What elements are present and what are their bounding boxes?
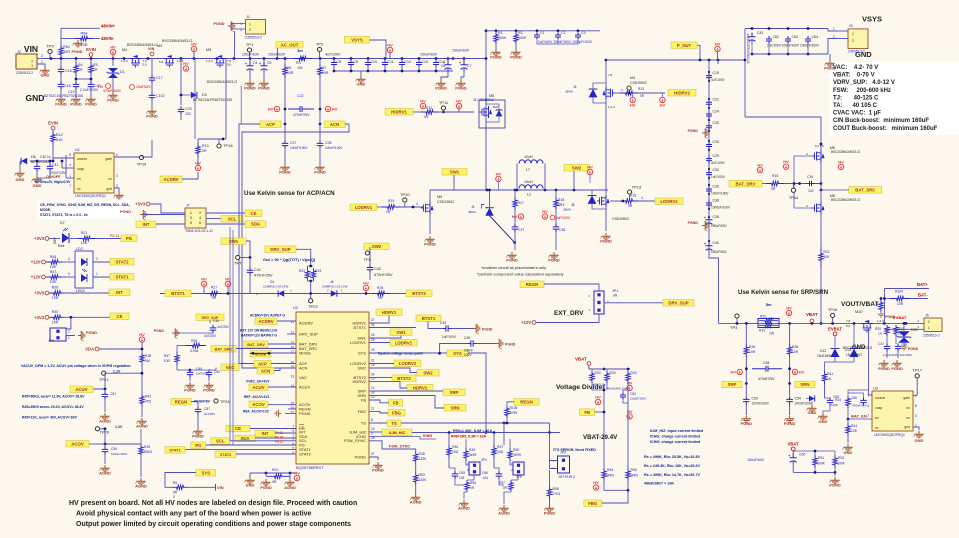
testpoint TP13: [628, 190, 632, 194]
svg-text:C8: C8: [337, 60, 342, 64]
svg-text:FSW: 200-600 kHz: FSW: 200-600 kHz: [833, 88, 891, 94]
svg-text:SW1: SW1: [396, 330, 406, 335]
net label SW2 power: [564, 165, 589, 172]
svg-text:4u7/25V: 4u7/25V: [204, 334, 217, 338]
red HV flag mid snubber: [518, 214, 523, 219]
capacitor C45: [440, 344, 469, 354]
red HV flag on rail: [387, 47, 392, 52]
wire JP1 to DRV_SUP: [604, 302, 663, 304]
svg-text:D20: D20: [911, 328, 918, 332]
red HV flag sense2: [792, 369, 797, 374]
svg-text:PGND: PGND: [192, 434, 204, 439]
net label SCL J7 pin4: [206, 218, 221, 220]
wire 48VIN branch: [60, 28, 62, 44]
svg-text:VBAT: VBAT: [806, 312, 818, 317]
svg-text:3: 3: [915, 414, 917, 418]
svg-text:R52: R52: [838, 456, 844, 460]
svg-text:AGND: AGND: [136, 424, 148, 429]
capacitor C24: [706, 111, 712, 119]
ground PGND small: [878, 312, 885, 317]
svg-text:4u7/25V: 4u7/25V: [204, 412, 215, 416]
svg-text:C43: C43: [440, 321, 446, 325]
resistor R7 10R: [319, 59, 321, 65]
svg-text:R34: R34: [191, 339, 197, 343]
svg-text:J5: J5: [925, 314, 929, 318]
wire U3 feed: [868, 323, 870, 395]
svg-text:ACP: ACP: [258, 361, 267, 366]
svg-text:AGND: AGND: [284, 485, 296, 490]
svg-text:4: 4: [416, 202, 418, 206]
svg-text:R64: R64: [81, 32, 88, 36]
svg-text:C17: C17: [156, 76, 163, 80]
net label SRP U2: [443, 389, 465, 396]
net label ACOV meas: [66, 441, 89, 448]
net label SRN U2: [444, 405, 466, 412]
net label ACN U2: [257, 368, 274, 375]
net label BTST2 right: [406, 290, 432, 297]
net flag +12V STAT2 row: [42, 260, 46, 264]
svg-text:PGND: PGND: [891, 366, 903, 371]
wire J1 down to rail: [234, 31, 236, 59]
svg-text:R49=2K5, ILIM = 20A: R49=2K5, ILIM = 20A: [451, 435, 487, 439]
svg-text:BTST2: BTST2: [412, 291, 426, 296]
svg-text:Avoid physical contact with an: Avoid physical contact with any part of …: [76, 511, 312, 518]
svg-text:BQ25756RRVT: BQ25756RRVT: [296, 465, 324, 470]
wire REGN pin stub: [288, 408, 296, 410]
red HV flag btst row2: [225, 281, 230, 286]
svg-text:5m: 5m: [766, 303, 772, 307]
ground AGND under R45: [135, 478, 145, 485]
svg-text:R56: R56: [470, 481, 476, 485]
svg-text:1: 1: [292, 433, 294, 437]
svg-text:BZT52C15LPBZT52C15S: BZT52C15LPBZT52C15S: [44, 94, 84, 98]
svg-text:C10: C10: [371, 60, 377, 64]
svg-text:C54: C54: [795, 397, 801, 401]
svg-text:PGND: PGND: [505, 343, 516, 347]
wire P_OUT to rail: [697, 45, 700, 60]
capacitor C1: [536, 31, 538, 33]
svg-text:1: 1: [190, 211, 192, 215]
capacitor C32: [706, 169, 712, 177]
svg-text:P0.13: P0.13: [110, 234, 119, 238]
svg-text:FB: FB: [361, 397, 366, 402]
svg-text:C11: C11: [388, 60, 394, 64]
svg-text:R10: R10: [272, 468, 278, 472]
resistor R54 49K9: [602, 468, 606, 481]
wire SW1 label down to C41: [246, 241, 250, 258]
resistor R11 0R: [413, 111, 421, 113]
ground PGND under U2: [369, 457, 378, 460]
svg-text:1K8: 1K8: [452, 450, 458, 454]
resistor R43 100K: [838, 397, 848, 399]
net label SRN sense: [795, 381, 815, 388]
zener diode D3: [180, 59, 182, 96]
svg-text:JP2: JP2: [48, 339, 54, 343]
net label HIDRV2: [668, 90, 696, 97]
svg-text:34: 34: [371, 323, 375, 327]
testpoint TP16: [831, 313, 835, 317]
svg-text:R37: R37: [164, 354, 170, 358]
red HV flag bat src: [838, 164, 843, 169]
net label INT row: [109, 289, 130, 296]
ground PGND flag JP2: [78, 331, 85, 341]
resistor R47 1K8: [493, 433, 495, 446]
svg-text:BAT_EN: BAT_EN: [851, 414, 867, 419]
svg-text:EXT 12V OR REGN LDO: EXT 12V OR REGN LDO: [240, 329, 278, 333]
resistor R49 4k99: [465, 439, 467, 448]
net label STAT1 bottom: [165, 447, 185, 454]
svg-text:10R: 10R: [322, 71, 329, 75]
svg-text:ACDRV: ACDRV: [299, 320, 313, 325]
capacitor C27: [284, 124, 286, 141]
red HV flag divider1: [627, 385, 632, 390]
net label BAT_SRC U2: [211, 346, 236, 353]
svg-text:C65: C65: [459, 471, 465, 475]
svg-text:1R: 1R: [78, 68, 83, 72]
ground GND cap bank: [360, 71, 362, 76]
svg-text:D7: D7: [60, 221, 65, 225]
svg-text:C12: C12: [405, 60, 411, 64]
svg-text:LD2: LD2: [76, 247, 83, 251]
svg-text:ACDRV: ACDRV: [258, 319, 273, 324]
net label FBG U2: [388, 410, 405, 417]
red HV flag on ACDRV chain: [195, 165, 200, 170]
net label FBG bottom: [584, 500, 602, 507]
capacitor C15: [706, 72, 712, 80]
diode D10 bootstrap: [331, 290, 337, 296]
svg-text:C38: C38: [559, 228, 565, 232]
svg-text:L2: L2: [527, 193, 531, 197]
capacitor C37: [514, 210, 516, 224]
svg-text:C57: C57: [204, 407, 210, 411]
net label ACUV meas: [70, 386, 93, 393]
ground PGND under M9: [429, 214, 431, 234]
net label BAT_SRC right: [849, 187, 882, 194]
svg-text:R45: R45: [144, 445, 150, 449]
net flag VDA: [95, 347, 99, 351]
diode D6: [30, 160, 53, 162]
shunt resistor R31 5m: [758, 319, 779, 328]
svg-text:HIDRV1: HIDRV1: [391, 109, 407, 114]
svg-text:100nF/100V: 100nF/100V: [325, 146, 343, 150]
svg-text:CMMR1U-02-LTW: CMMR1U-02-LTW: [263, 285, 288, 289]
svg-text:11: 11: [371, 406, 375, 410]
svg-text:150uF/63V: 150uF/63V: [711, 224, 727, 228]
svg-text:BSC035N10NS3-G: BSC035N10NS3-G: [207, 80, 237, 84]
ground PGND under R1: [490, 49, 500, 56]
svg-text:HV: HV: [201, 276, 207, 281]
ground AGND under R53: [410, 494, 420, 501]
svg-text:PGND: PGND: [146, 114, 158, 119]
svg-text:SDA: SDA: [251, 222, 260, 227]
svg-text:4u7/100V: 4u7/100V: [325, 53, 341, 57]
capacitor C35: [706, 186, 712, 194]
net label LODRV2 U2: [394, 360, 421, 367]
diode D14 bat: [809, 396, 815, 402]
svg-text:SRN: SRN: [450, 405, 459, 410]
svg-text:PGND: PGND: [435, 86, 447, 91]
capacitor C14: [435, 59, 437, 61]
svg-text:R42: R42: [145, 395, 151, 399]
svg-text:TP9: TP9: [46, 44, 54, 49]
ground PGND under C6: [435, 80, 445, 87]
svg-text:D4: D4: [270, 280, 274, 284]
svg-text:TP7: TP7: [234, 261, 242, 266]
svg-text:0R: 0R: [503, 486, 508, 490]
svg-text:HV present on board. Not all H: HV present on board. Not all HV nodes ar…: [69, 500, 357, 507]
svg-text:1000pF/100V: 1000pF/100V: [711, 205, 731, 209]
svg-text:CE: CE: [251, 211, 257, 216]
svg-text:R24: R24: [315, 269, 321, 273]
svg-text:PGND: PGND: [203, 388, 215, 393]
svg-text:GND: GND: [819, 419, 828, 424]
net flag +3V3 J7: [146, 202, 150, 206]
net label CE J7 pin2: [206, 212, 245, 214]
wire diodes bottom: [835, 357, 854, 362]
wire kelvin sense ACP down to IC: [239, 124, 296, 364]
svg-text:R19: R19: [388, 199, 394, 203]
svg-text:D6: D6: [31, 155, 36, 159]
ground PGND flag ladder2: [702, 221, 709, 231]
svg-text:DRV_SUP: DRV_SUP: [299, 331, 318, 336]
resistor R50 4K99: [509, 439, 511, 448]
svg-text:2: 2: [249, 28, 251, 32]
jumper JP1: [594, 291, 604, 314]
ground PGND flag J7 pin3: [140, 210, 147, 220]
svg-text:5: 5: [190, 221, 192, 225]
svg-text:PGND: PGND: [70, 102, 82, 107]
net label STAT2: [110, 259, 134, 266]
svg-text:M9: M9: [437, 195, 442, 199]
svg-text:gate: gate: [903, 396, 910, 400]
ground PGND above R64: [72, 40, 82, 47]
wire FSW_SYNC: [369, 441, 416, 451]
svg-text:+3V3: +3V3: [34, 315, 45, 320]
capacitor C30: [36, 161, 38, 164]
svg-text:MODE: MODE: [299, 350, 311, 355]
svg-text:gnd: gnd: [904, 425, 910, 429]
svg-text:10uH: 10uH: [524, 155, 533, 159]
svg-text:vcap: vcap: [77, 167, 84, 171]
svg-text:0R: 0R: [628, 204, 633, 208]
jumper JP2: [66, 317, 71, 329]
ground PGND flag C43: [473, 324, 480, 334]
svg-text:R36: R36: [792, 345, 798, 349]
svg-text:TP8: TP8: [364, 257, 372, 262]
svg-text:C66: C66: [482, 471, 488, 475]
svg-text:2: 2: [928, 320, 930, 324]
svg-text:PGND: PGND: [741, 421, 753, 426]
svg-text:C5: C5: [267, 61, 272, 65]
svg-text:JP5: JP5: [516, 475, 522, 479]
ground PGND under C4: [244, 80, 254, 87]
capacitor C42: [367, 265, 374, 273]
svg-text:R51: R51: [818, 456, 824, 460]
wire +3V3 to J7 pin1: [150, 204, 185, 213]
svg-text:PGND: PGND: [510, 55, 522, 60]
resistor R42 7K5: [141, 393, 143, 395]
wire to VSYS block: [744, 29, 746, 118]
resistor R15 0R: [762, 183, 766, 185]
svg-text:Rs = 499K, Rb= 14.7K, Vo=54.7V: Rs = 499K, Rb= 14.7K, Vo=54.7V: [644, 473, 701, 477]
svg-text:+3V3: +3V3: [34, 291, 45, 296]
svg-text:D13: D13: [845, 348, 851, 352]
net flag EVBAT diode: [833, 332, 837, 336]
svg-text:51K: 51K: [56, 138, 63, 142]
svg-text:C48: C48: [901, 343, 907, 347]
svg-text:HV: HV: [730, 369, 736, 374]
svg-text:1: 1: [928, 326, 930, 330]
svg-text:PGND: PGND: [72, 50, 83, 54]
svg-text:R47: R47: [497, 445, 503, 449]
ground GND under J2: [39, 67, 49, 74]
svg-text:VDRV_SUP: 4.0-12 V: VDRV_SUP: 4.0-12 V: [833, 80, 895, 86]
svg-text:R55: R55: [631, 468, 637, 472]
svg-text:HV: HV: [660, 103, 666, 108]
svg-text:+3V3: +3V3: [135, 202, 146, 207]
svg-text:R48: R48: [419, 452, 425, 456]
net label SYS bottom left: [196, 470, 216, 477]
net label MODE U2: [250, 351, 271, 358]
wires U1 left pins: [53, 157, 74, 159]
svg-text:470nF/25V: 470nF/25V: [254, 274, 273, 278]
svg-text:TP11: TP11: [439, 100, 449, 105]
red HV flag R11 left: [420, 103, 425, 108]
svg-text:C51: C51: [110, 392, 116, 396]
red HV flags bat drv: [757, 167, 762, 172]
resistor R1 100K: [495, 31, 497, 32]
svg-text:C35: C35: [713, 184, 719, 188]
resistor R40: [626, 371, 630, 383]
wire TS onward: [401, 422, 550, 424]
testpoint TP2: [317, 47, 321, 51]
svg-text:EVIN: EVIN: [48, 121, 58, 126]
capacitor C41 vsys bulk: [749, 33, 756, 37]
inductor L1 10uH: [516, 164, 518, 191]
svg-text:2.2uF/100V: 2.2uF/100V: [80, 88, 99, 92]
wire divider mid: [592, 383, 604, 390]
svg-text:470nF/25V: 470nF/25V: [293, 113, 310, 117]
svg-text:M10: M10: [855, 310, 862, 314]
wire vsys to J3: [828, 29, 838, 32]
svg-text:COUT Buck-boost: minimum 160: COUT Buck-boost: minimum 160uF: [833, 126, 938, 132]
svg-text:PGND: PGND: [120, 210, 131, 214]
svg-text:1: 1: [240, 22, 242, 26]
wire bundle vertical 2: [232, 230, 234, 445]
svg-text:PGND: PGND: [548, 258, 560, 263]
red HV flag VDA: [139, 337, 144, 342]
svg-text:R46: R46: [452, 445, 458, 449]
svg-text:HV: HV: [268, 107, 274, 112]
svg-text:2350513-2: 2350513-2: [923, 334, 940, 338]
svg-text:R38: R38: [145, 354, 151, 358]
resistor R38 1M: [140, 353, 144, 364]
connector J5: [924, 318, 942, 332]
capacitor C11: [384, 59, 386, 61]
net label REGN right: [514, 399, 539, 406]
svg-text:1: 1: [41, 60, 43, 64]
svg-text:C25: C25: [713, 121, 719, 125]
resistor R14 0R gate: [615, 92, 620, 94]
svg-text:P_OUT: P_OUT: [677, 43, 692, 48]
net label DRV_SUP mid: [265, 246, 296, 253]
svg-text:HV: HV: [786, 305, 792, 310]
capacitor C28: [319, 124, 321, 141]
testpoint TP10: [403, 198, 407, 202]
wire BAT_EN to en pin: [848, 418, 872, 420]
mosfet M6: [812, 150, 824, 162]
capacitor C62: [766, 36, 772, 44]
ground PGND under C37: [506, 252, 516, 259]
svg-text:1: 1: [249, 23, 251, 27]
svg-text:R2: R2: [518, 31, 523, 35]
wire BAT+ branch: [883, 289, 885, 324]
svg-text:BAT: BAT: [493, 105, 499, 109]
ground GND under D14: [806, 405, 816, 412]
resistor R61 10R: [59, 44, 63, 59]
svg-text:HDRV1: HDRV1: [382, 310, 397, 315]
svg-text:C63: C63: [792, 35, 798, 39]
svg-text:PGND: PGND: [490, 55, 502, 60]
svg-text:J4 CSD19502: J4 CSD19502: [473, 98, 494, 102]
ground AGND ilim1: [464, 492, 467, 499]
svg-text:4: 4: [867, 404, 869, 408]
mosfet M4: [603, 87, 615, 99]
red HV flag right of C22: [325, 106, 330, 111]
svg-text:C32: C32: [713, 168, 719, 172]
svg-text:HV: HV: [110, 44, 116, 49]
capacitor C9: [350, 59, 352, 61]
capacitor C44 4u7: [209, 321, 211, 324]
wire M3 source down: [225, 59, 227, 140]
svg-text:10K: 10K: [52, 296, 59, 300]
svg-text:C41: C41: [254, 268, 261, 272]
wire kelvin sense ACN down to IC: [242, 124, 349, 368]
wire rail to J5 pin2: [884, 328, 924, 330]
resistor R55 49K9: [626, 468, 630, 481]
TVS diode D1: [112, 59, 114, 67]
svg-text:PGND: PGND: [600, 239, 612, 244]
svg-text:BSC035N10NS3-G: BSC035N10NS3-G: [831, 150, 861, 154]
svg-text:100nF/100V: 100nF/100V: [752, 402, 770, 406]
svg-text:STAT1: STAT1: [116, 274, 130, 279]
svg-text:J6MA: J6MA: [565, 90, 574, 94]
diode D5 beside M5: [496, 110, 503, 116]
net label VAC cluster: [209, 368, 216, 371]
capacitor C51: [104, 389, 106, 392]
svg-text:2: 2: [833, 35, 835, 39]
capacitor C102: [151, 83, 153, 93]
capacitor C20: [90, 76, 92, 82]
resistor R6 10R: [284, 59, 286, 65]
svg-text:BTST2: BTST2: [397, 376, 411, 381]
svg-text:1: 1: [68, 336, 70, 340]
svg-text:4: 4: [69, 163, 71, 167]
bootstrap rail wire: [160, 293, 430, 295]
svg-text:0R: 0R: [424, 115, 429, 119]
svg-text:5uF/100V: 5uF/100V: [556, 216, 571, 220]
svg-text:0R: 0R: [173, 491, 178, 495]
svg-text:4u7/25V: 4u7/25V: [217, 325, 230, 329]
wire ILIM row: [412, 432, 560, 434]
red HV flag left of C22: [274, 106, 279, 111]
svg-text:4K99: 4K99: [513, 453, 521, 457]
svg-text:26: 26: [371, 333, 375, 337]
svg-text:STAT2: STAT2: [116, 259, 130, 264]
wire VBAT divider top: [793, 450, 835, 452]
wire cap ladder vertical: [708, 60, 710, 252]
svg-text:CE: CE: [117, 314, 123, 319]
